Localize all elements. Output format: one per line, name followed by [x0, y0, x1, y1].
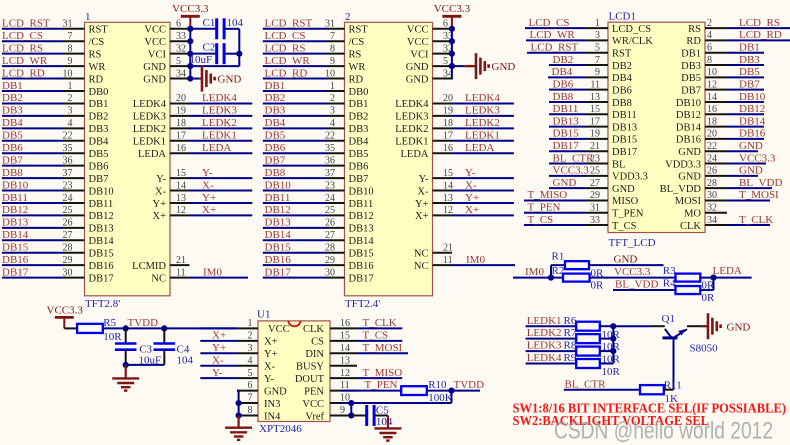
svg-text:33: 33: [590, 215, 600, 226]
svg-text:RD: RD: [686, 36, 701, 47]
svg-text:T_PEN: T_PEN: [528, 202, 561, 214]
svg-text:LCD1: LCD1: [609, 11, 637, 23]
pin 20 (LEDK4) of TFT2.8', net LEDK4: [133, 92, 253, 110]
svg-text:RST: RST: [89, 25, 109, 36]
svg-text:6: 6: [176, 19, 181, 30]
ground earth symbol under C5: [374, 415, 401, 440]
svg-text:DB7: DB7: [2, 154, 23, 166]
svg-text:VCC: VCC: [407, 25, 429, 36]
svg-text:14: 14: [176, 180, 186, 191]
wire net DB1 to pin 1 (DB0) of TFT2.8': [2, 80, 108, 98]
svg-text:BL_CTR: BL_CTR: [553, 152, 595, 164]
svg-text:25: 25: [325, 205, 335, 216]
svg-text:3: 3: [248, 343, 253, 354]
svg-text:1: 1: [330, 81, 335, 92]
svg-text:DB12: DB12: [265, 204, 291, 216]
svg-text:GND: GND: [492, 61, 516, 73]
svg-text:31: 31: [590, 203, 600, 214]
svg-text:DB5: DB5: [739, 66, 760, 78]
wire net LCD_RST to pin 31 (RST) of TFT2.4': [263, 18, 369, 36]
svg-text:DB2: DB2: [89, 112, 109, 123]
wire net DB17 to pin 30 (DB17) of TFT2.4': [263, 266, 374, 284]
svg-text:6: 6: [248, 380, 253, 391]
svg-text:DB12: DB12: [676, 110, 701, 121]
svg-text:/CS: /CS: [349, 37, 365, 48]
svg-text:NC: NC: [414, 261, 429, 272]
svg-text:VCI: VCI: [148, 49, 167, 60]
svg-text:17: 17: [176, 131, 186, 142]
resistor R3 0R: [663, 265, 715, 291]
wire net DB8 to pin 37 (DB7) of TFT2.4': [263, 167, 369, 185]
svg-text:18: 18: [176, 118, 186, 129]
svg-text:DB5: DB5: [681, 73, 701, 84]
transistor Q1 S8050: [662, 313, 719, 390]
svg-text:Y-: Y-: [465, 167, 476, 179]
svg-text:21: 21: [176, 255, 186, 266]
svg-text:DB10: DB10: [676, 98, 701, 109]
svg-text:DB13: DB13: [612, 122, 637, 133]
svg-text:DB11: DB11: [349, 199, 374, 210]
svg-text:TVDD: TVDD: [454, 379, 485, 391]
svg-text:DB5: DB5: [2, 130, 23, 142]
svg-text:7: 7: [330, 31, 335, 42]
U1 pin 9 (Vref) stub: [305, 405, 357, 422]
U1 pin 11 (PEN) stub: [304, 380, 357, 397]
svg-text:T_CLK: T_CLK: [363, 317, 397, 329]
svg-text:R7: R7: [564, 327, 577, 339]
svg-text:GND: GND: [143, 74, 166, 85]
resistor R10 100K: [401, 379, 453, 404]
U1 pin 5 (Y-) stub: [237, 368, 274, 385]
wire net T_MOSI from pin 30 (MOSI) of LCD1: [675, 189, 779, 207]
wire net DB1 from pin 6 (DB1) of LCD1: [681, 42, 764, 60]
wire net DB17 to pin 21 (DB17) of LCD1: [549, 140, 637, 158]
svg-text:14: 14: [340, 343, 350, 354]
svg-text:DB16: DB16: [265, 254, 292, 266]
svg-text:23: 23: [325, 180, 335, 191]
svg-text:DB5: DB5: [349, 149, 369, 160]
svg-text:DB7: DB7: [681, 85, 701, 96]
svg-text:DB11: DB11: [89, 199, 114, 210]
svg-text:DB2: DB2: [612, 61, 632, 72]
svg-text:LEDK3: LEDK3: [465, 105, 500, 117]
svg-text:R4: R4: [663, 278, 676, 290]
IC TFT2.4' module body: [345, 11, 433, 310]
svg-text:12: 12: [707, 79, 717, 90]
svg-text:DB0: DB0: [89, 87, 109, 98]
svg-text:GND: GND: [739, 165, 763, 177]
wire TVDD to U1 pin1: [200, 327, 237, 329]
svg-text:X+: X+: [465, 204, 479, 216]
wire net T_CLK from pin 34 (CLK) of LCD1: [680, 214, 773, 232]
svg-text:RST: RST: [612, 49, 632, 60]
svg-text:VCC3.3: VCC3.3: [47, 305, 84, 317]
U1 pin 16 (CLK) stub: [303, 318, 357, 335]
svg-text:LCD_RD: LCD_RD: [265, 67, 308, 79]
wire net DB1 to pin 1 (DB0) of TFT2.4': [263, 80, 369, 98]
svg-text:X-: X-: [417, 186, 429, 197]
resistor R11 1K: [640, 379, 682, 405]
wire net DB13 to pin 26 (DB13) of TFT2.8': [2, 217, 114, 235]
svg-text:LCD_CS: LCD_CS: [529, 17, 570, 29]
svg-text:19: 19: [176, 106, 186, 117]
wire net DB16 from pin 20 (DB16) of LCD1: [676, 128, 766, 146]
svg-text:T_CS: T_CS: [363, 329, 389, 341]
svg-text:DB11: DB11: [265, 192, 291, 204]
svg-text:VCI: VCI: [410, 49, 429, 60]
svg-text:20: 20: [443, 93, 453, 104]
svg-text:CLK: CLK: [303, 324, 324, 335]
svg-text:5: 5: [248, 368, 253, 379]
svg-text:CS: CS: [311, 337, 324, 348]
svg-text:11: 11: [590, 79, 600, 90]
svg-text:DB16: DB16: [89, 261, 114, 272]
wire R4 to LEDA node: [700, 278, 713, 290]
svg-text:DB12: DB12: [89, 211, 114, 222]
svg-text:DB14: DB14: [265, 229, 292, 241]
svg-text:DB3: DB3: [2, 105, 23, 117]
svg-text:DB1: DB1: [2, 80, 23, 92]
svg-text:LEDK3: LEDK3: [133, 112, 166, 123]
pin 13 (Y+) of TFT2.8', net Y+: [152, 192, 252, 210]
svg-text:33: 33: [176, 31, 186, 42]
svg-text:20: 20: [176, 93, 186, 104]
svg-text:DB14: DB14: [676, 122, 702, 133]
svg-text:DB14: DB14: [2, 229, 29, 241]
svg-text:DB1: DB1: [681, 49, 701, 60]
wire net DB14 to pin 27 (DB14) of TFT2.4': [263, 229, 375, 247]
svg-text:CSDN @hello world 2012: CSDN @hello world 2012: [554, 418, 773, 445]
svg-text:LCD_CS: LCD_CS: [265, 30, 306, 42]
U1 pin 14 (DIN) stub: [305, 343, 357, 360]
svg-text:27: 27: [63, 230, 73, 241]
pin 13 (Y+) of TFT2.4', net Y+: [415, 192, 514, 210]
wire net DB2 to pin 7 (DB2) of LCD1: [549, 54, 632, 72]
svg-text:DB10: DB10: [739, 91, 766, 103]
svg-text:37: 37: [325, 168, 335, 179]
svg-text:DOUT: DOUT: [295, 374, 325, 385]
svg-text:DB13: DB13: [349, 224, 374, 235]
svg-text:9: 9: [340, 405, 345, 416]
wire U1 pin10 VCC to TVDD: [341, 391, 452, 407]
svg-text:VCC: VCC: [302, 399, 324, 410]
svg-text:LCD_RD: LCD_RD: [739, 29, 782, 41]
wire net LCD_RST to pin 31 (RST) of TFT2.8': [2, 18, 108, 36]
pin 5 (GND) of TFT2.8': [143, 56, 191, 73]
svg-text:X+: X+: [152, 211, 166, 222]
svg-text:0R: 0R: [591, 279, 605, 291]
U1 pin 3 (Y+) stub: [237, 343, 278, 360]
svg-text:DB0: DB0: [349, 87, 369, 98]
svg-text:14: 14: [707, 92, 717, 103]
svg-text:24: 24: [325, 193, 335, 204]
svg-text:DB2: DB2: [349, 112, 369, 123]
ground GND symbol at Q1 emitter: [702, 313, 750, 339]
wire net Y+ to U1: [200, 342, 237, 354]
wire net LEDK4 / resistor R9 10R: [526, 352, 621, 378]
svg-text:DB2: DB2: [2, 92, 23, 104]
wire net DB12 to pin 25 (DB12) of TFT2.8': [2, 204, 114, 222]
svg-text:BL_VDD: BL_VDD: [615, 278, 658, 290]
svg-text:104: 104: [376, 416, 393, 428]
wire net IM0 strap: [513, 265, 565, 281]
svg-text:15: 15: [590, 104, 600, 115]
svg-text:DB17: DB17: [2, 266, 29, 278]
svg-text:DB3: DB3: [739, 54, 760, 66]
pin 21 (NC) of TFT2.4': [414, 243, 453, 260]
svg-text:5: 5: [595, 43, 600, 54]
svg-text:LCD_RST: LCD_RST: [2, 18, 50, 30]
pin 12 (X+) of TFT2.4', net X+: [415, 204, 514, 222]
svg-text:6: 6: [707, 43, 712, 54]
svg-text:36: 36: [63, 155, 73, 166]
pin 34 (GND) of TFT2.8': [143, 68, 191, 85]
pin 19 (LEDK3) of TFT2.4', net LEDK3: [395, 105, 514, 123]
svg-text:Y-: Y-: [202, 167, 213, 179]
svg-text:T_MISO: T_MISO: [363, 367, 403, 379]
svg-text:9: 9: [595, 67, 600, 78]
svg-text:32: 32: [707, 203, 717, 214]
svg-text:DIN: DIN: [305, 349, 324, 360]
svg-text:DB15: DB15: [2, 242, 29, 254]
wire net T_MISO to pin 29 (MISO) of LCD1: [524, 189, 639, 207]
wire net DB2 to pin 2 (DB1) of TFT2.8': [2, 92, 108, 110]
svg-text:DB10: DB10: [349, 186, 374, 197]
wire net LCD_CS to pin 7 (/CS) of TFT2.8': [2, 30, 104, 48]
wire net GND from pin 22 (GND) of LCD1: [678, 140, 763, 158]
capacitor C5 104: [367, 405, 393, 428]
wire net DB7 to pin 36 (DB6) of TFT2.4': [263, 154, 369, 172]
wire net DB12 to pin 25 (DB12) of TFT2.4': [263, 204, 374, 222]
wire net LCD_RST to pin 5 (RST) of LCD1: [527, 42, 632, 60]
svg-text:GND: GND: [739, 140, 763, 152]
wire net T_PEN to pin 31 (T_PEN) of LCD1: [524, 202, 644, 220]
svg-text:1: 1: [85, 11, 91, 23]
svg-text:LEDA: LEDA: [401, 149, 429, 160]
svg-text:6: 6: [443, 19, 448, 30]
wire net LCD_WR to pin 3 (WR/CLK) of LCD1: [526, 29, 653, 47]
wire U1 GND/IN3/IN4 rail: [236, 391, 242, 419]
svg-text:0R: 0R: [702, 292, 716, 304]
wire net VCC3.3 to pin 25 (VDD3.3) of LCD1: [549, 165, 648, 183]
U1 pin 6 (GND) stub: [237, 380, 287, 397]
wire net BL_VDD from pin 28 (BL_VDD) of LCD1: [660, 177, 783, 195]
svg-text:DB8: DB8: [553, 91, 574, 103]
U1 pin 12 (DOUT) stub: [295, 368, 357, 385]
svg-text:DB15: DB15: [612, 135, 637, 146]
svg-text:17: 17: [443, 131, 453, 142]
svg-text:MOSI: MOSI: [675, 196, 702, 207]
svg-text:RS: RS: [89, 49, 102, 60]
U1 pin 8 (IN4) stub: [237, 405, 281, 422]
svg-text:DB15: DB15: [265, 242, 292, 254]
wire net BL_VDD to R4: [613, 278, 676, 290]
svg-text:DB2: DB2: [553, 54, 574, 66]
svg-text:19: 19: [443, 106, 453, 117]
wire net GND from pin 26 (GND) of LCD1: [678, 165, 763, 183]
svg-text:GND: GND: [406, 74, 429, 85]
IC TFT2.8' module body: [85, 11, 171, 310]
svg-text:R6: R6: [564, 315, 577, 327]
svg-text:R10: R10: [428, 379, 447, 391]
svg-text:VDD3.3: VDD3.3: [665, 159, 701, 170]
svg-text:DB7: DB7: [739, 78, 760, 90]
svg-text:DB17: DB17: [265, 266, 292, 278]
svg-text:DB11: DB11: [553, 103, 579, 115]
svg-text:31: 31: [63, 19, 73, 30]
svg-text:25: 25: [63, 205, 73, 216]
svg-text:BL_VDD: BL_VDD: [660, 184, 702, 195]
pin 16 (LEDA) of TFT2.8', net LEDA: [138, 142, 252, 160]
svg-text:X-: X-: [465, 179, 477, 191]
svg-text:36: 36: [325, 155, 335, 166]
pin 21 (LCMID) of TFT2.8': [132, 255, 189, 272]
wire LEDK common rail to Q1: [610, 323, 665, 363]
svg-text:10: 10: [63, 68, 73, 79]
svg-text:11: 11: [176, 267, 186, 278]
resistor R1 0R: [552, 251, 605, 280]
wire net DB14 to pin 27 (DB14) of TFT2.8': [2, 229, 114, 247]
svg-text:LCD_WR: LCD_WR: [265, 55, 311, 67]
svg-text:Vref: Vref: [305, 411, 324, 422]
svg-text:CLK: CLK: [680, 221, 701, 232]
svg-text:R2: R2: [552, 265, 565, 277]
svg-text:Y-: Y-: [156, 174, 166, 185]
power VCC3.3 symbol (module 1): [172, 3, 209, 29]
wire net TVDD: [103, 317, 237, 331]
svg-text:VCC: VCC: [268, 324, 290, 335]
svg-text:19: 19: [590, 129, 600, 140]
svg-text:DB7: DB7: [89, 174, 109, 185]
svg-text:DB12: DB12: [349, 211, 374, 222]
wire net BL_CTR to pin 23 (BL) of LCD1: [549, 152, 625, 170]
op-amp U1 XPT2046 body: [257, 308, 330, 435]
wire net DB7 from pin 12 (DB7) of LCD1: [681, 78, 764, 96]
svg-text:X+: X+: [202, 204, 216, 216]
svg-text:DB7: DB7: [265, 154, 286, 166]
svg-text:LEDK4: LEDK4: [395, 99, 429, 110]
svg-text:10uF: 10uF: [190, 54, 213, 66]
pin 11 (NC) of TFT2.8': [151, 266, 248, 284]
wire net DB4 to pin 4 (DB3) of TFT2.8': [2, 117, 108, 135]
svg-text:13: 13: [340, 355, 350, 366]
wire net LCD_RS from pin 2 (RS) of LCD1: [688, 17, 790, 35]
svg-text:16: 16: [707, 104, 717, 115]
ground GND symbol (module 1): [190, 66, 241, 92]
svg-text:T_MISO: T_MISO: [528, 189, 568, 201]
svg-text:RST: RST: [349, 25, 369, 36]
svg-text:LEDK2: LEDK2: [527, 327, 562, 339]
svg-text:DB13: DB13: [89, 224, 114, 235]
svg-text:VCC3.3: VCC3.3: [739, 152, 776, 164]
svg-text:26: 26: [707, 166, 717, 177]
pin 33 (VCC) of TFT2.4': [407, 31, 453, 48]
U1 polarity notch arc: [288, 321, 300, 326]
svg-text:16: 16: [443, 143, 453, 154]
svg-text:T_MOSI: T_MOSI: [363, 342, 403, 354]
power VCC3.3 symbol (touch supply): [47, 305, 84, 329]
wire net VCC3.3 from pin 24 (VDD3.3) of LCD1: [665, 152, 776, 170]
svg-text:4: 4: [248, 355, 253, 366]
svg-text:26: 26: [63, 218, 73, 229]
svg-text:3: 3: [68, 106, 73, 117]
svg-text:LCD_RS: LCD_RS: [739, 17, 780, 29]
svg-text:DB7: DB7: [349, 174, 369, 185]
svg-text:1: 1: [248, 318, 253, 329]
svg-text:U1: U1: [257, 308, 270, 320]
svg-text:26: 26: [325, 218, 335, 229]
svg-text:14: 14: [443, 180, 453, 191]
svg-text:Y+: Y+: [152, 199, 166, 210]
svg-text:16: 16: [340, 318, 350, 329]
svg-text:LEDK2: LEDK2: [395, 124, 428, 135]
svg-text:29: 29: [325, 255, 335, 266]
svg-text:IM0: IM0: [525, 266, 544, 278]
wire U1 pin9 Vref rail: [348, 403, 367, 419]
svg-text:DB1: DB1: [349, 99, 369, 110]
wire net DB4 to pin 9 (DB4) of LCD1: [548, 66, 633, 84]
svg-text:13: 13: [443, 193, 453, 204]
svg-text:32: 32: [176, 43, 186, 54]
wire net nc from pin 32 (MO) of LCD1: [684, 203, 727, 220]
svg-text:IN4: IN4: [264, 411, 281, 422]
wire net DB7 to pin 36 (DB6) of TFT2.8': [2, 154, 108, 172]
pin 17 (LEDK1) of TFT2.8', net LEDK1: [133, 130, 253, 148]
wire net DB10 to pin 23 (DB10) of TFT2.4': [263, 179, 374, 197]
svg-text:8: 8: [248, 405, 253, 416]
svg-text:10: 10: [325, 68, 335, 79]
svg-text:DB16: DB16: [676, 135, 701, 146]
svg-text:LEDK1: LEDK1: [395, 137, 428, 148]
wire net X- to U1: [200, 354, 237, 366]
pin 12 (X+) of TFT2.8', net X+: [152, 204, 252, 222]
wire net DB11 to pin 24 (DB11) of TFT2.8': [2, 192, 113, 210]
svg-text:2: 2: [707, 18, 712, 29]
pin 17 (LEDK1) of TFT2.4', net LEDK1: [395, 130, 514, 148]
wire net BL_CTR: [564, 378, 640, 390]
U1 pin 2 (X+) stub: [237, 330, 278, 347]
wire net DB4 to pin 4 (DB3) of TFT2.4': [263, 117, 369, 135]
wire net LCD_WR to pin 9 (WR) of TFT2.8': [2, 55, 105, 73]
svg-text:X-: X-: [212, 354, 224, 366]
svg-text:37: 37: [63, 168, 73, 179]
pin 32 (VCI) of TFT2.4': [410, 43, 453, 60]
svg-text:DB15: DB15: [89, 249, 114, 260]
svg-text:PEN: PEN: [304, 386, 324, 397]
svg-text:7: 7: [68, 31, 73, 42]
svg-text:LCD_RD: LCD_RD: [2, 67, 45, 79]
svg-text:Y+: Y+: [465, 192, 479, 204]
wire net LCD_RD to pin 10 (RD) of TFT2.8': [2, 67, 104, 85]
svg-text:LCD_RST: LCD_RST: [265, 18, 313, 30]
svg-text:T_PEN: T_PEN: [365, 379, 398, 391]
svg-text:3: 3: [595, 30, 600, 41]
svg-text:30: 30: [707, 190, 717, 201]
svg-text:LEDK3: LEDK3: [527, 340, 562, 352]
svg-text:20: 20: [707, 129, 717, 140]
svg-text:DB1: DB1: [739, 42, 760, 54]
svg-text:DB6: DB6: [349, 161, 369, 172]
svg-text:LCD_WR: LCD_WR: [530, 29, 576, 41]
pin 32 (VCI) of TFT2.8': [148, 43, 191, 60]
svg-text:9: 9: [68, 56, 73, 67]
wire net DB10 from pin 14 (DB10) of LCD1: [676, 91, 766, 109]
svg-text:GND: GND: [612, 184, 635, 195]
svg-text:DB17: DB17: [612, 147, 637, 158]
svg-text:4: 4: [68, 118, 73, 129]
wire net LEDK1 / resistor R6 10R: [526, 315, 621, 341]
svg-text:21: 21: [590, 141, 600, 152]
